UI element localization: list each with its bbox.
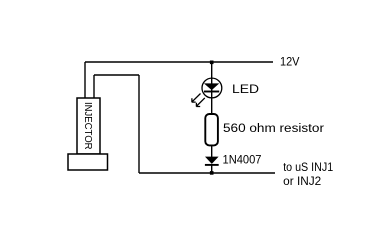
svg-text:INJECTOR: INJECTOR: [82, 102, 94, 150]
wire diode to bottom rail: [211, 165, 213, 173]
wire horizontal from injector terminal 2: [94, 74, 139, 76]
svg-text:12V: 12V: [280, 56, 300, 68]
injector body: [77, 98, 100, 154]
svg-text:1N4007: 1N4007: [223, 155, 262, 167]
LED: [192, 62, 222, 114]
wire 12V rail: [85, 61, 273, 63]
light emission arrow 2: [196, 98, 205, 107]
node junction on 12V rail: [210, 61, 214, 65]
injector base: [68, 154, 108, 170]
node junction on bottom rail: [210, 171, 214, 175]
wire resistor to diode: [211, 145, 213, 157]
resistor 560 ohm R1: [205, 114, 218, 145]
wire vertical drop to bottom rail: [138, 75, 140, 173]
wire injector terminal 1 riser: [84, 62, 86, 98]
wire injector terminal 2 riser: [93, 75, 95, 98]
svg-text:560 ohm resistor: 560 ohm resistor: [223, 123, 324, 135]
diode 1N4007 D2: [205, 157, 219, 165]
light emission arrow 1: [192, 94, 201, 103]
svg-text:to uS INJ1: to uS INJ1: [283, 162, 333, 174]
wire bottom output rail: [139, 172, 275, 174]
svg-text:LED: LED: [232, 84, 259, 96]
svg-text:or INJ2: or INJ2: [283, 176, 321, 188]
